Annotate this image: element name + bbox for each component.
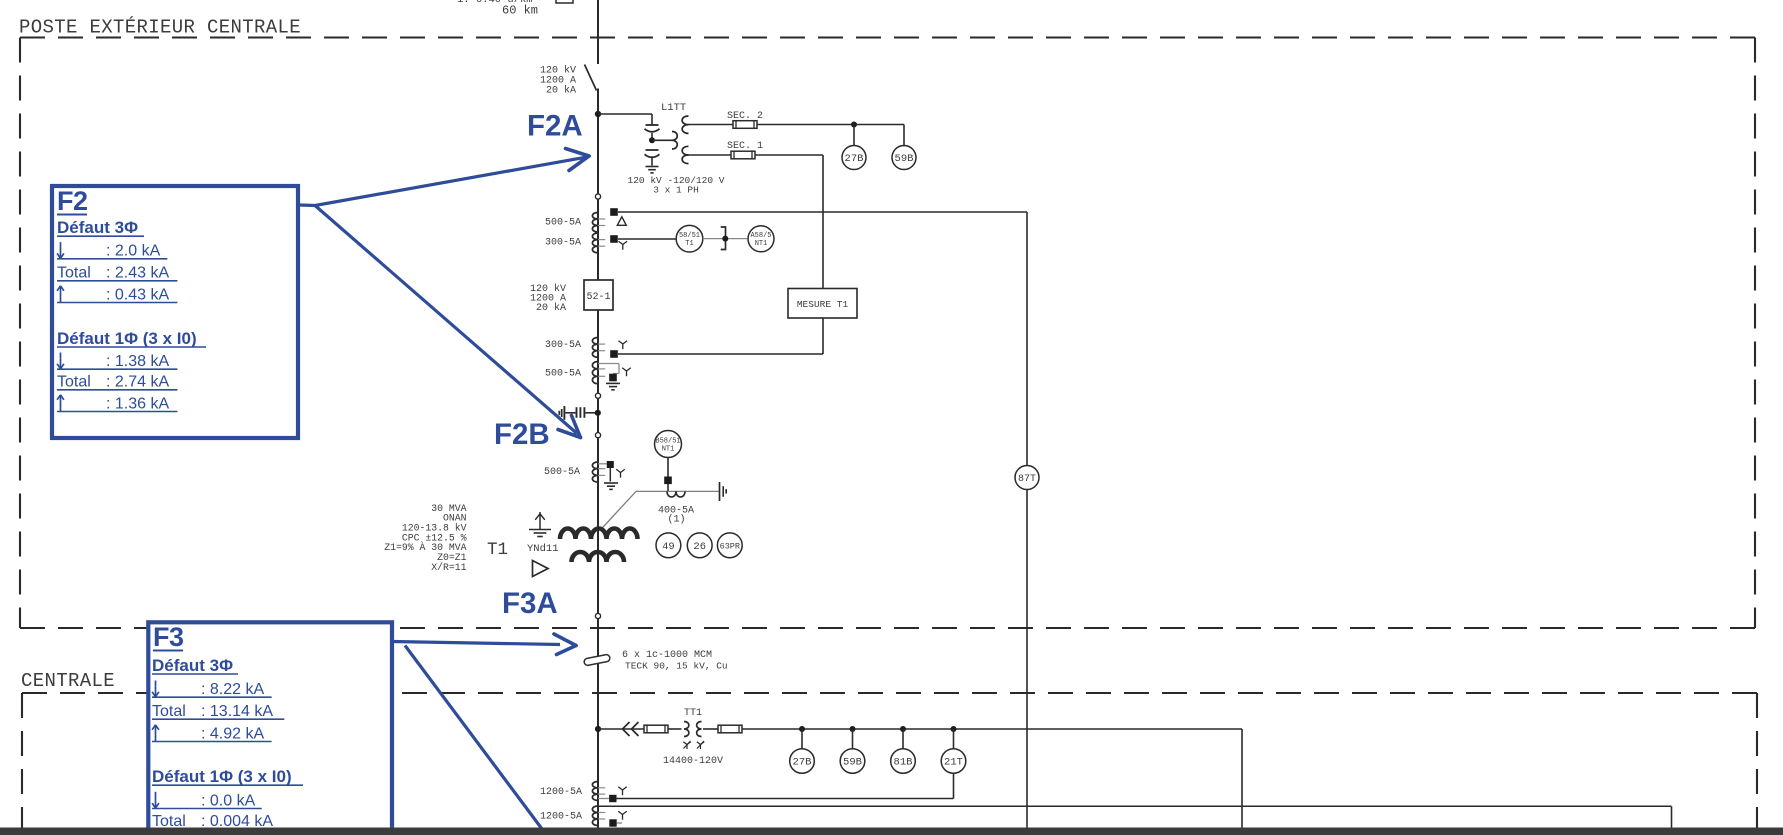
svg-text:: 2.0 kA: : 2.0 kA xyxy=(106,243,161,260)
svg-text:Total: Total xyxy=(57,265,91,282)
svg-text:CENTRALE: CENTRALE xyxy=(21,670,115,692)
svg-text:F2B: F2B xyxy=(494,418,550,451)
svg-text:14400-120V: 14400-120V xyxy=(663,756,723,767)
svg-text:F2A: F2A xyxy=(527,110,583,143)
svg-text:500-5A: 500-5A xyxy=(544,467,580,478)
svg-text:: 2.43 kA: : 2.43 kA xyxy=(106,265,169,282)
svg-text:21T: 21T xyxy=(944,757,963,769)
svg-text:Défaut 3Φ: Défaut 3Φ xyxy=(57,218,138,237)
svg-text:Total: Total xyxy=(152,813,186,830)
svg-text:52-1: 52-1 xyxy=(586,292,610,303)
svg-text:X/R=11: X/R=11 xyxy=(431,562,466,573)
svg-text:1200-5A: 1200-5A xyxy=(540,812,582,823)
svg-text:: 0.0 kA: : 0.0 kA xyxy=(201,792,256,809)
svg-text:: 13.14 kA: : 13.14 kA xyxy=(201,703,273,720)
svg-text:A58/5: A58/5 xyxy=(750,232,771,240)
svg-text:L1TT: L1TT xyxy=(661,102,686,114)
svg-text:1: 0.40 u/km: 1: 0.40 u/km xyxy=(457,0,533,6)
svg-text:: 1.36 kA: : 1.36 kA xyxy=(106,395,169,412)
svg-text:POSTE EXTÉRIEUR CENTRALE: POSTE EXTÉRIEUR CENTRALE xyxy=(19,17,301,39)
svg-text:26: 26 xyxy=(693,541,706,553)
svg-text:TT1: TT1 xyxy=(684,708,702,719)
svg-text:: 2.74 kA: : 2.74 kA xyxy=(106,374,169,391)
svg-text:59B: 59B xyxy=(895,153,914,165)
svg-text:Défaut 1Φ (3 x I0): Défaut 1Φ (3 x I0) xyxy=(57,329,197,348)
svg-text:20 kA: 20 kA xyxy=(546,85,576,97)
svg-text:500-5A: 500-5A xyxy=(545,369,581,380)
svg-text:Total: Total xyxy=(57,374,91,391)
svg-text:: 0.43 kA: : 0.43 kA xyxy=(106,286,169,303)
svg-text:(1): (1) xyxy=(667,514,685,526)
svg-text:MESURE T1: MESURE T1 xyxy=(797,299,849,310)
svg-text:B58/51: B58/51 xyxy=(655,438,680,446)
svg-text:TECK 90, 15 kV, Cu: TECK 90, 15 kV, Cu xyxy=(625,661,728,672)
svg-text:3 x 1 PH: 3 x 1 PH xyxy=(653,185,699,196)
svg-text:T1: T1 xyxy=(685,240,693,248)
svg-text:81B: 81B xyxy=(894,757,913,769)
svg-text:49: 49 xyxy=(662,541,675,553)
svg-text:27B: 27B xyxy=(793,757,812,769)
svg-text:300-5A: 300-5A xyxy=(545,340,581,351)
svg-text:Défaut 1Φ (3 x I0): Défaut 1Φ (3 x I0) xyxy=(152,767,292,786)
svg-text:SEC. 1: SEC. 1 xyxy=(727,141,763,152)
svg-text:27B: 27B xyxy=(845,153,864,165)
svg-text:: 4.92 kA: : 4.92 kA xyxy=(201,725,264,742)
svg-text:63PR: 63PR xyxy=(720,542,740,552)
svg-text:87T: 87T xyxy=(1018,474,1036,485)
svg-text:NT1: NT1 xyxy=(662,446,675,454)
svg-text:500-5A: 500-5A xyxy=(545,218,581,229)
svg-text:Défaut 3Φ: Défaut 3Φ xyxy=(152,656,233,675)
svg-text:300-5A: 300-5A xyxy=(545,238,581,249)
svg-text:20 kA: 20 kA xyxy=(536,302,566,314)
svg-text:F3: F3 xyxy=(153,622,184,652)
svg-text:: 8.22 kA: : 8.22 kA xyxy=(201,681,264,698)
svg-text:6 x 1c-1000 MCM: 6 x 1c-1000 MCM xyxy=(622,650,712,661)
svg-text:58/51: 58/51 xyxy=(679,232,700,240)
svg-text:Total: Total xyxy=(152,703,186,720)
svg-text:F3A: F3A xyxy=(502,587,558,620)
svg-text:YNd11: YNd11 xyxy=(527,543,559,555)
svg-text:1200-5A: 1200-5A xyxy=(540,787,582,798)
svg-text:T1: T1 xyxy=(487,540,508,560)
svg-text:59B: 59B xyxy=(843,757,862,769)
svg-text:: 0.004 kA: : 0.004 kA xyxy=(201,813,273,830)
svg-text:: 1.38 kA: : 1.38 kA xyxy=(106,353,169,370)
svg-text:NT1: NT1 xyxy=(755,240,768,248)
svg-text:F2: F2 xyxy=(57,186,88,216)
